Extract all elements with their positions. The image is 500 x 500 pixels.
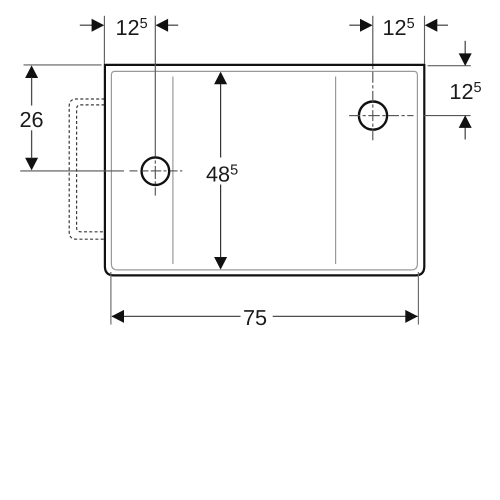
dimension 12.5 right side: down-pointing arrow	[464, 41, 466, 54]
dimension 75: left extension line	[110, 272, 112, 325]
dimension 26: top extension line	[24, 64, 102, 66]
dimension 12.5 top-right: right-pointing arrow	[349, 24, 360, 26]
basin interior contour line right	[335, 77, 337, 265]
dimension 75: line left segment	[112, 315, 241, 317]
towel rail outer dashed outline	[69, 99, 104, 239]
dimension 12.5 right side: up-pointing arrow	[464, 128, 466, 140]
dimension 75: right-pointing arrow	[405, 310, 418, 323]
dimension 48.5: up-pointing arrow	[214, 72, 227, 85]
dimension 26: stem lower	[31, 130, 33, 158]
centerline vertical of right tap hole	[372, 16, 374, 141]
dimension 75: right extension line	[417, 272, 419, 325]
basin interior contour line left	[172, 77, 174, 265]
dimension 75: left-pointing arrow	[111, 310, 124, 323]
dimension 75: line right segment	[273, 315, 418, 317]
tap hole right	[359, 102, 387, 130]
centerline vertical of left tap hole	[154, 16, 156, 196]
centerline horizontal of left tap hole	[20, 170, 182, 172]
centerline horizontal of right tap hole	[349, 115, 471, 117]
dimension 12.5 right side: extension line from basin top edge	[428, 65, 471, 67]
dimension 48.5: down-pointing arrow	[214, 257, 227, 270]
towel rail inner dashed outline	[77, 105, 105, 232]
dimension 12.5 top-left: right-pointing arrow	[80, 24, 92, 26]
dimension 12.5 top-right: extension line at basin right edge	[424, 16, 426, 64]
tap hole left	[142, 157, 170, 185]
washbasin inner rim	[111, 71, 417, 270]
dimension 48.5: stem lower	[220, 185, 222, 258]
washbasin outer outline	[105, 65, 424, 276]
dimension 26: down-pointing arrow	[25, 158, 38, 171]
dimension 26: up-pointing arrow	[25, 65, 38, 78]
dimension 12.5 top-left: left-pointing arrow	[168, 24, 179, 26]
dimension 12.5 top-right: left-pointing arrow	[437, 24, 448, 26]
dimension 48.5: stem upper	[220, 84, 222, 158]
svg-text:26: 26	[19, 107, 43, 132]
dimension 12.5 top-left: extension line at basin left edge	[103, 16, 105, 64]
svg-text:75: 75	[243, 305, 267, 330]
dimension 26: stem upper	[31, 78, 33, 106]
